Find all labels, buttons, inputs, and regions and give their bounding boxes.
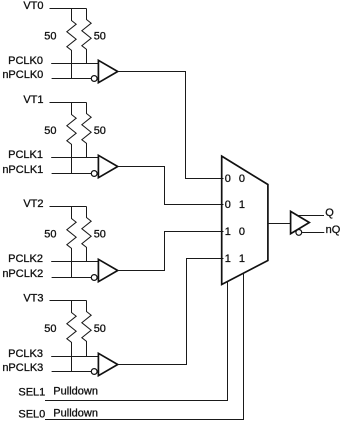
svg-text:50: 50 — [44, 323, 56, 335]
svg-text:0: 0 — [225, 199, 231, 211]
svg-text:0: 0 — [239, 173, 245, 185]
svg-text:0: 0 — [225, 173, 231, 185]
svg-text:nQ: nQ — [326, 224, 341, 236]
svg-text:nPCLK2: nPCLK2 — [2, 268, 43, 280]
svg-text:50: 50 — [94, 229, 106, 241]
svg-text:nPCLK0: nPCLK0 — [2, 69, 43, 81]
svg-text:1: 1 — [225, 226, 231, 238]
svg-text:50: 50 — [94, 323, 106, 335]
svg-text:Pulldown: Pulldown — [53, 407, 98, 419]
svg-text:PCLK0: PCLK0 — [8, 55, 43, 67]
svg-text:SEL0: SEL0 — [18, 409, 45, 421]
svg-text:nPCLK3: nPCLK3 — [2, 362, 43, 374]
svg-text:PCLK1: PCLK1 — [8, 149, 43, 161]
svg-text:50: 50 — [44, 31, 56, 43]
svg-text:50: 50 — [44, 125, 56, 137]
svg-text:PCLK3: PCLK3 — [8, 348, 43, 360]
svg-text:nPCLK1: nPCLK1 — [2, 164, 43, 176]
svg-text:1: 1 — [239, 199, 245, 211]
svg-text:1: 1 — [225, 253, 231, 265]
svg-text:1: 1 — [239, 253, 245, 265]
svg-text:50: 50 — [44, 229, 56, 241]
svg-text:Pulldown: Pulldown — [53, 386, 98, 398]
svg-text:0: 0 — [239, 226, 245, 238]
svg-text:VT2: VT2 — [23, 198, 43, 210]
svg-text:VT3: VT3 — [23, 293, 43, 305]
svg-text:PCLK2: PCLK2 — [8, 253, 43, 265]
svg-text:SEL1: SEL1 — [18, 386, 45, 398]
svg-text:Q: Q — [325, 207, 334, 219]
svg-text:50: 50 — [94, 125, 106, 137]
svg-text:VT1: VT1 — [23, 94, 43, 106]
svg-text:VT0: VT0 — [23, 0, 43, 12]
svg-text:50: 50 — [94, 31, 106, 43]
